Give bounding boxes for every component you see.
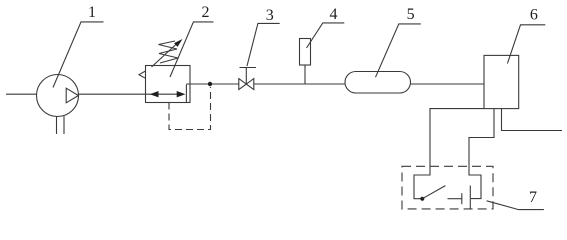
gauge G4 stem (304, 65, 306, 84)
junction node (208, 82, 212, 86)
label 1 leader (53, 22, 104, 88)
wire: box6 bottom to switch right lead (469, 109, 494, 199)
svg-text:4: 4 (330, 6, 338, 23)
svg-text:7: 7 (529, 189, 537, 206)
pump exhaust legs (56, 116, 58, 134)
regulator double arrow right head (177, 91, 186, 97)
pilot dashed line (169, 87, 211, 130)
regulator through-line inside box (146, 93, 179, 95)
svg-text:3: 3 (266, 7, 274, 24)
regulator internal bar (185, 85, 187, 103)
switch fixed contact bar (461, 193, 463, 204)
valve V3 right triangle (246, 79, 254, 90)
label 5 leader (376, 24, 421, 77)
regulator adjust arrow (152, 43, 178, 67)
svg-text:1: 1 (88, 4, 96, 21)
wire: box6 bottom to right output (502, 109, 563, 131)
wire: main rail valve to box6 (254, 83, 484, 85)
label 7 leader (487, 201, 544, 210)
valve V3 left triangle (239, 79, 247, 90)
valve V3 stem (245, 68, 247, 85)
pressure switch S7 dashed enclosure (402, 166, 493, 209)
label 6 leader (507, 25, 545, 64)
regulator R2 body (146, 66, 191, 103)
label 2 leader (170, 22, 214, 77)
wire: box6 bottom-left to switch (414, 109, 484, 199)
pump P1 triangle (66, 88, 78, 103)
svg-text:6: 6 (530, 7, 538, 24)
svg-text:2: 2 (202, 4, 210, 21)
label 3 leader (247, 23, 280, 66)
switch moving contact bar (469, 186, 471, 209)
svg-text:5: 5 (407, 6, 415, 23)
pump P1 (circle) (37, 75, 79, 117)
accumulator A5 (345, 72, 411, 94)
wire: pump to regulator through-line (78, 93, 179, 95)
label 4 leader (307, 23, 345, 48)
regulator vent arrow (139, 71, 146, 78)
switch fixed lead (448, 198, 462, 200)
regulator double arrow left head (150, 91, 159, 97)
switch arm (422, 186, 445, 199)
gauge G4 body (300, 39, 311, 66)
wire: main rail regulator to valve (186, 83, 239, 85)
switch hinge dot (420, 197, 424, 201)
regulator spring (159, 41, 179, 63)
wire: inlet line to pump (6, 93, 37, 95)
device box U6 (484, 55, 519, 108)
valve V3 handle bar (240, 67, 257, 69)
